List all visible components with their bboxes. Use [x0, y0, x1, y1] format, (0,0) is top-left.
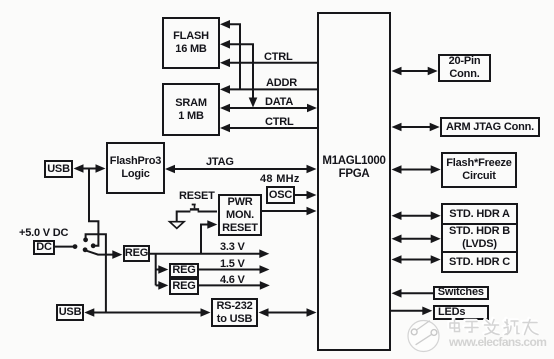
arrowhead HDR B left	[392, 235, 402, 244]
arrowhead RS-232-FPGA left	[259, 308, 269, 317]
wire bottom USB to RS-232	[94, 312, 201, 314]
wire FPGA to STD HDR A	[401, 215, 431, 217]
block DC jack	[33, 240, 55, 255]
arrowhead blade into REG	[112, 250, 122, 259]
arrowhead HDR C right	[431, 255, 441, 264]
arrowhead CTRL into SRAM	[220, 124, 230, 133]
arrowhead Flash*Freeze right	[431, 165, 441, 174]
wire FPGA to STD HDR C	[401, 259, 431, 261]
arrowhead Flash*Freeze left	[392, 165, 402, 174]
block Switches	[433, 286, 489, 300]
block OSC	[266, 186, 295, 204]
arrowhead DATA into FPGA	[307, 104, 317, 113]
wire 3.3V branch into PWR MON	[201, 225, 208, 254]
wire FPGA to ARM JTAG conn	[401, 126, 430, 128]
wire branch to REG2	[156, 269, 159, 271]
arrowhead HDR C left	[392, 255, 402, 264]
wire RESET button left + ground drop	[177, 212, 191, 222]
wire 1.5V rail	[199, 269, 260, 271]
arrowhead USB-FlashPro3 right	[96, 164, 106, 173]
wire DATA branch to FLASH (vertical V2)	[229, 44, 253, 98]
block STD HDR C	[441, 251, 518, 273]
block USB top	[44, 160, 73, 178]
arrowhead OSC into FPGA	[307, 191, 317, 200]
wire PWR MON to FPGA	[262, 210, 308, 212]
ground symbol	[170, 222, 184, 229]
arrowhead into RS-232 left	[201, 308, 211, 317]
block Flash*Freeze Circuit	[441, 152, 517, 188]
arrowhead JTAG left	[165, 165, 175, 174]
arrowhead ADDR into FLASH	[220, 20, 230, 29]
wire OSC to FPGA	[295, 194, 308, 196]
arrowhead HDR A left	[392, 211, 402, 220]
arrowhead 4.6V rail	[260, 281, 270, 290]
arrowhead JTAG right into FPGA	[307, 165, 317, 174]
arrowhead ARM JTAG left	[392, 123, 402, 132]
block REG3	[169, 278, 199, 295]
wire branch to REG3	[156, 284, 159, 286]
arrowhead into LEDs	[422, 307, 432, 316]
arrowhead USB-FlashPro3 left	[74, 164, 84, 173]
label 4.6 V	[220, 275, 245, 286]
block USB bottom	[56, 304, 84, 321]
arrowhead 3.3V rail	[259, 249, 269, 258]
block 20-Pin Conn	[438, 54, 491, 82]
arrowhead 1.5V rail	[260, 265, 270, 274]
label +5.0 V DC	[19, 228, 68, 239]
wire FPGA to Flash*Freeze	[401, 169, 431, 171]
arrowhead RS-232-FPGA right into FPGA	[307, 308, 317, 317]
wire switch blade to REG	[86, 251, 113, 255]
block FLASH 16MB	[162, 17, 220, 69]
junction dot switch upper contact	[83, 237, 88, 242]
label CTRL bottom	[265, 117, 294, 128]
wire REG tee down	[155, 254, 157, 286]
arrowhead DATA branch down	[249, 98, 258, 108]
wire JTAG FlashPro3-FPGA	[175, 168, 308, 170]
block STD HDR B	[441, 223, 518, 253]
wire USB to FlashPro3	[83, 168, 97, 170]
block M1AGL1000 FPGA	[317, 12, 391, 351]
label RESET	[179, 191, 215, 202]
wire CTRL bus to FLASH	[229, 62, 317, 64]
block PWR MON RESET	[218, 194, 262, 236]
watermark logo circle	[408, 321, 439, 352]
arrowhead DATA into FLASH	[220, 40, 230, 49]
wire RESET button right to PWR MON	[198, 211, 217, 213]
arrowhead 20-pin right	[428, 67, 438, 76]
arrowhead into bottom USB	[84, 308, 94, 317]
block REG1	[123, 245, 150, 262]
wire switch upper contact to bottom USB rail	[86, 234, 106, 312]
wire ADDR branch to FLASH (vertical V1)	[229, 24, 240, 89]
arrowhead into REG2	[158, 265, 168, 274]
wire ADDR bus to SRAM	[229, 88, 317, 90]
junction dot switch USB contact	[91, 243, 96, 248]
wire Switches to FPGA	[401, 292, 433, 294]
wire CTRL bus to SRAM	[229, 127, 317, 129]
label 3.3 V	[220, 242, 245, 253]
arrowhead PWR MON into FPGA	[307, 207, 317, 216]
pushbutton RESET	[190, 205, 199, 210]
arrowhead 3.3V into PWR MON	[207, 220, 217, 229]
label 48 MHz	[260, 174, 300, 185]
svg-text:www.elecfans.com: www.elecfans.com	[448, 335, 547, 349]
wire FPGA to STD HDR B	[401, 238, 431, 240]
arrowhead Switches into FPGA	[392, 289, 402, 298]
label 1.5 V	[220, 259, 245, 270]
arrowhead 20-pin left	[392, 67, 402, 76]
block RS-232 to USB	[211, 298, 258, 327]
wire 4.6V rail	[199, 284, 260, 286]
wire 3.3V rail	[150, 253, 260, 255]
arrowhead into REG3	[158, 281, 168, 290]
watermark hanzi 电子发烧友 (stylized)	[449, 319, 538, 335]
label JTAG	[206, 157, 234, 168]
block REG2	[169, 263, 199, 278]
arrowhead HDR A right	[431, 211, 441, 220]
wire FPGA to LEDs	[391, 310, 423, 312]
arrowhead DATA into SRAM	[220, 104, 230, 113]
block STD HDR A	[441, 203, 518, 225]
wire RS-232 to FPGA	[268, 312, 307, 314]
arrowhead CTRL into FLASH	[220, 59, 230, 68]
wire DC jack to switch	[55, 246, 74, 248]
block LEDs	[433, 305, 489, 321]
wire DATA bus SRAM-FPGA	[230, 107, 308, 109]
junction dot switch pole	[83, 247, 88, 252]
arrowhead ARM JTAG right	[430, 123, 440, 132]
wire USB power drop to switch contact	[89, 168, 98, 246]
block ARM JTAG Conn	[440, 117, 540, 137]
junction dot DC wire	[73, 244, 78, 249]
label ADDR	[266, 78, 297, 89]
wire FPGA to 20-pin conn	[401, 70, 428, 72]
block FlashPro3 Logic	[106, 142, 165, 194]
label DATA	[265, 97, 293, 108]
arrowhead HDR B right	[431, 235, 441, 244]
label CTRL top	[264, 52, 293, 63]
arrowhead ADDR into SRAM	[220, 85, 230, 94]
block SRAM 1MB	[162, 83, 220, 136]
